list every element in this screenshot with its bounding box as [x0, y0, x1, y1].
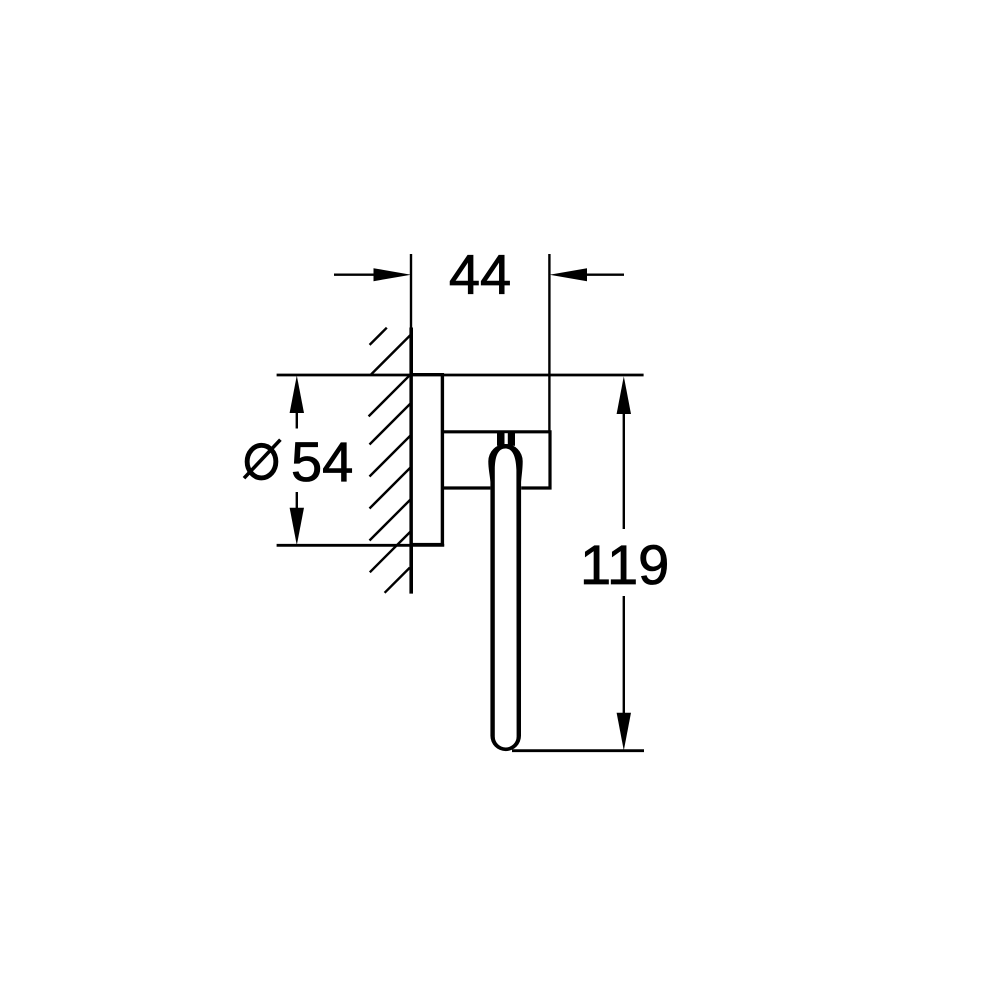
44 dimension line, left part with arrowhead pointing right — [334, 268, 411, 281]
right extension line of 44 (x=549.4) — [548, 254, 550, 431]
holder arm body — [442, 432, 550, 488]
pivot pin of ring — [497, 432, 515, 446]
svg-text:54: 54 — [291, 430, 353, 493]
left extension line of 44 (x=411) — [410, 254, 412, 330]
bottom extension line of dia-54 (y=545.3) — [277, 544, 445, 547]
svg-text:44: 44 — [449, 243, 511, 306]
wall face line (x=411.2) — [409, 328, 413, 594]
119 dimension line upper segment with arrowhead pointing up — [617, 376, 631, 529]
dia-54 dimension line upper segment with arrowhead pointing up — [290, 376, 304, 429]
wall hatching (45 degree strokes left of wall face) — [369, 328, 411, 593]
top extension line (upper datum, y=375) — [277, 374, 644, 377]
bottom extension line of 119 (y=750.7) — [512, 749, 644, 752]
label dia 54 : diameter symbol drawn as ellipse + slash — [244, 440, 280, 479]
escutcheon wall plate (rosette, dia 54) — [411, 375, 442, 545]
paper holder ring (side view, elongated loop) — [488, 444, 522, 751]
dia-54 dimension line lower segment with arrowhead pointing down — [290, 492, 304, 545]
svg-text:119: 119 — [580, 533, 669, 596]
44 dimension line, right part with arrowhead pointing left — [550, 268, 625, 281]
119 dimension line lower segment with arrowhead pointing down — [617, 596, 631, 751]
